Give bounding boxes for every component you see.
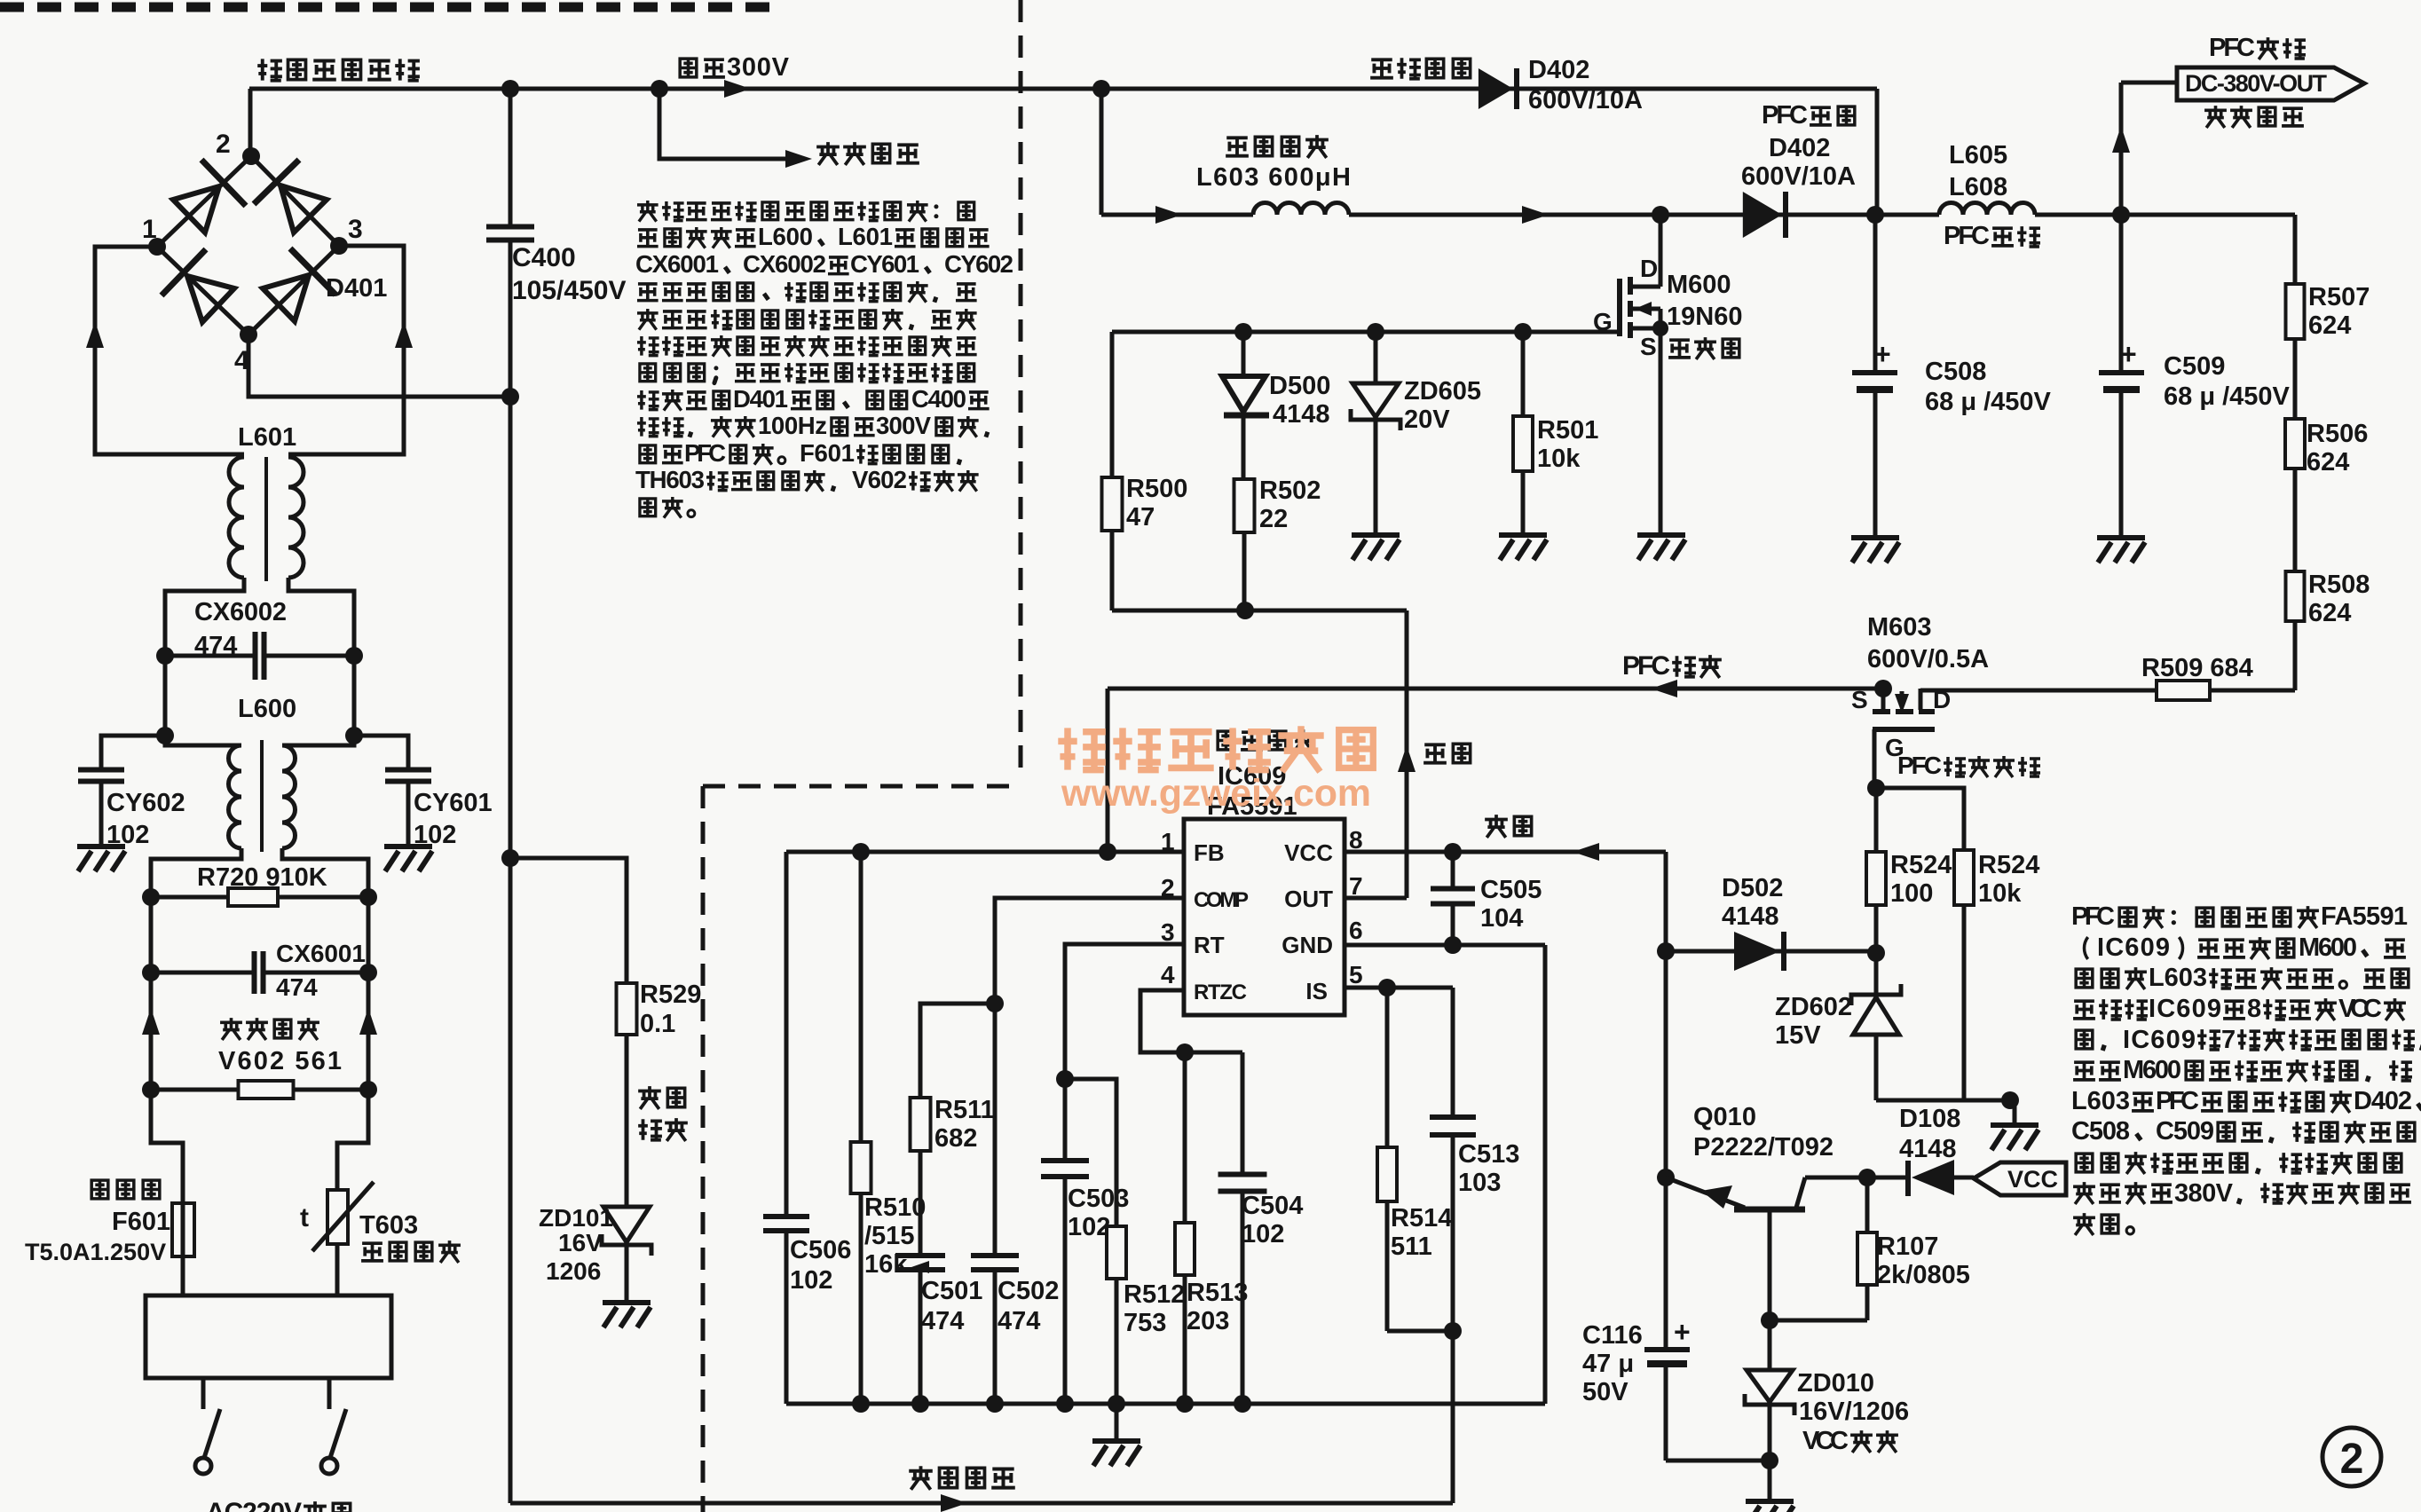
zener ZD602 [1874,953,1879,997]
svg-text:R506: R506 [2307,420,2368,448]
wire FB left rail with C506 [785,852,789,1217]
svg-text:Q010: Q010 [1693,1103,1756,1131]
svg-text:7: 7 [1349,872,1363,900]
wire R512 branch [1065,1079,1116,1226]
wire IS pin5 [1345,986,1453,990]
svg-text:104: 104 [1480,904,1523,933]
wire COMP pin2 [995,898,1184,1256]
junction D502 cathode [1867,944,1885,962]
wire bridge node4 to C400 bottom [248,335,510,397]
svg-text:IC609: IC609 [2097,933,2170,962]
label 激励 [1423,744,1447,762]
svg-text:CY602: CY602 [106,789,185,817]
svg-text:4148: 4148 [1722,902,1779,931]
bridge diode D401-1 (1 to 2) [173,186,219,232]
junction C400 top [501,80,519,98]
wire OUT pin7 [1345,896,1407,901]
wire ground rail riser [1543,945,1548,1404]
wire FB to PFC sample riser [1106,689,1110,852]
inductor L603 [1253,203,1349,216]
page number circle 2 [2322,1428,2381,1486]
ground ZD101 [603,1300,651,1305]
svg-text:IC609: IC609 [2123,1026,2196,1054]
svg-text:CY602: CY602 [944,250,1013,278]
svg-text:R507: R507 [2308,283,2370,311]
svg-text:R524: R524 [1978,851,2039,879]
svg-text:19N60: 19N60 [1667,303,1742,331]
svg-text:C400: C400 [911,385,966,413]
svg-text:600V/10A: 600V/10A [1741,162,1856,191]
svg-text:CX6001: CX6001 [276,940,366,967]
svg-text:R502: R502 [1259,476,1321,505]
svg-text:FA5591: FA5591 [2321,902,2408,931]
svg-text:t: t [300,1203,309,1232]
svg-text:D: D [1933,686,1951,713]
node 脉动300V main wire [249,87,1877,91]
svg-text:624: 624 [2308,599,2351,627]
ground C509 [2097,535,2145,540]
svg-text:R514: R514 [1391,1204,1452,1232]
svg-text:ZD101: ZD101 [539,1204,613,1232]
svg-text:+: + [2120,338,2137,370]
svg-text:www.gzweix.com: www.gzweix.com [1061,772,1371,815]
wire IS to overcurrent line [1451,1331,1455,1503]
svg-text:L603: L603 [2071,1087,2130,1115]
svg-text:R500: R500 [1126,475,1187,503]
svg-text:47: 47 [1126,503,1155,532]
svg-text:380V: 380V [2174,1179,2234,1208]
label 供电 [1485,815,1508,838]
svg-text:PFC: PFC [2071,902,2115,931]
svg-text:4148: 4148 [1899,1135,1957,1163]
wire M600 gate rail [1112,330,1620,335]
wire RTZC pin4 [1140,990,1242,1052]
svg-text:C509: C509 [2156,1117,2214,1146]
wire to R524b [1876,788,1964,850]
svg-text:IC609: IC609 [2149,995,2221,1023]
wire to R509 [2211,689,2295,693]
wire divider chain [2293,215,2298,284]
resistor R107 [1865,1177,1870,1232]
svg-text:R529: R529 [640,980,701,1009]
ground ZD010 [1746,1499,1794,1504]
wire boost rail [1101,213,1253,217]
wire VCC pin8 供电 [1345,850,1666,854]
ground R501 [1499,532,1547,538]
svg-text:D502: D502 [1722,874,1783,902]
svg-text:V602: V602 [852,466,907,493]
capacitor C506 [763,1214,809,1219]
svg-text:AC220V: AC220V [206,1498,302,1512]
capacitor C508 [1873,215,1878,371]
svg-text:8: 8 [2247,995,2261,1023]
capacitor C504 [1241,1052,1245,1175]
svg-text:C502: C502 [998,1277,1059,1305]
svg-text:C513: C513 [1458,1140,1519,1169]
wire OUT riser 激励 [1405,610,1409,898]
svg-text:C116: C116 [1582,1321,1643,1350]
svg-text:T5.0A1.250V: T5.0A1.250V [25,1239,166,1265]
junction C508 top [1866,206,1884,224]
svg-text:R107: R107 [1877,1232,1938,1261]
svg-text:16V: 16V [558,1229,603,1256]
svg-text:M600: M600 [2299,933,2357,962]
svg-text:C503: C503 [1068,1185,1129,1213]
svg-text:D402: D402 [1769,134,1830,162]
svg-text:CY601: CY601 [414,789,493,817]
ground CY601 [384,844,432,849]
resistor R507 [2286,284,2305,339]
svg-text:R509 684: R509 684 [2141,654,2253,682]
svg-text:M600: M600 [1667,271,1731,299]
svg-text:RT: RT [1194,932,1225,958]
svg-text:F601: F601 [112,1208,170,1236]
junction C509 top [2112,206,2130,224]
svg-text:CY601: CY601 [850,250,919,278]
svg-text:L608: L608 [1949,173,2007,201]
svg-text:L603: L603 [2149,964,2207,992]
svg-text:ZD010: ZD010 [1797,1369,1874,1398]
label 市电整流滤波 [257,59,282,80]
ground C508 [1851,535,1899,540]
svg-text:102: 102 [790,1266,832,1295]
svg-text:S: S [1851,686,1868,713]
svg-text:D401: D401 [326,274,387,303]
svg-text:2: 2 [2340,1436,2364,1483]
switch contacts [201,1378,206,1409]
svg-text:VCC: VCC [2338,995,2382,1023]
section border dashed vertical right [1019,0,1023,781]
wire PFC取样 feedback [1108,687,1883,691]
label 过流取样 [638,1086,661,1109]
flag DC-380V-OUT [2177,67,2364,100]
svg-text:L601: L601 [838,223,893,250]
wire to thermistor [337,1090,368,1295]
svg-text:3: 3 [348,215,363,244]
diode D500 [1234,323,1252,341]
transistor Q2 Q010 [1666,1177,1745,1208]
svg-text:22: 22 [1259,505,1288,533]
svg-text:C400: C400 [512,243,576,272]
svg-text:102: 102 [414,821,456,849]
svg-text:D108: D108 [1899,1105,1960,1133]
op-amp U1 IC609 FA5591 box [1184,819,1345,1015]
capacitor C116 [1664,1177,1668,1348]
svg-text:D401: D401 [733,385,788,413]
svg-text:L603 600μH: L603 600μH [1196,163,1351,192]
ground M600 [1637,532,1685,538]
diode D502 [1666,949,1876,954]
resistor R514 [1385,988,1390,1147]
svg-text:L600: L600 [238,695,296,723]
capacitor C501 [895,1253,945,1258]
svg-text:100Hz: 100Hz [758,412,827,439]
junction C400 bottom [501,388,519,406]
resistor R512 [1107,1226,1126,1279]
label 去副电源 [816,142,840,165]
svg-text:R512: R512 [1124,1280,1185,1309]
wire bridge node3 to L601 [288,246,404,454]
inductor L605 L608 [1939,203,2035,216]
resistor R510 [859,852,864,1142]
zener ZD010 [1768,1320,1772,1370]
wire supply riser [1664,852,1668,1177]
transistor M600 [1659,215,1663,287]
wire filter ladder rails [149,897,154,1090]
label 去主电源 [2204,106,2227,128]
label 脉动300V [680,59,697,77]
varistor V602 body [151,1088,239,1092]
svg-text:600V/10A: 600V/10A [1528,86,1643,114]
svg-text:8: 8 [1349,826,1363,854]
svg-text:PFC: PFC [1762,101,1808,130]
svg-text:D500: D500 [1269,372,1330,400]
svg-text:PFC: PFC [1897,752,1942,779]
capacitor C502 [971,1253,1019,1258]
wire main left vertical bus [509,397,513,1503]
capacitor CY602 [101,736,165,770]
capacitor C513 [1451,988,1455,1117]
svg-text:/515: /515 [864,1222,914,1250]
svg-text:C501: C501 [921,1277,982,1305]
svg-text:PFC: PFC [1622,651,1670,681]
svg-text:+: + [1674,1316,1691,1348]
zener ZD605 [1367,323,1384,341]
svg-text:6: 6 [1349,917,1363,944]
flag VCC [1974,1162,2066,1195]
svg-text:M603: M603 [1867,613,1932,642]
resistor R511 [911,1098,931,1151]
section border dashed vertical left [701,786,706,1512]
svg-text:L605: L605 [1949,141,2007,169]
bridge diode D401-4 (4 to 3) [263,275,309,321]
svg-text:C505: C505 [1480,876,1542,904]
ground R524 network [1991,1122,2039,1128]
AC input connector box [146,1295,391,1378]
svg-text:105/450V: 105/450V [512,276,626,305]
svg-text:L601: L601 [238,423,296,452]
wire output flag riser [2119,83,2124,215]
svg-text:VCC: VCC [1284,839,1333,866]
svg-text:C508: C508 [2071,1117,2130,1146]
svg-text:103: 103 [1458,1169,1501,1197]
resistor R513 [1183,1052,1187,1223]
svg-text:OUT: OUT [1284,886,1333,912]
wire 去副电源 branch [659,89,797,159]
wire bridge top riser [248,89,253,156]
wire boost riser [1100,89,1104,215]
label 驱动电路 IC609 FA5591 [1218,731,1234,750]
svg-text:4: 4 [1161,961,1175,988]
resistor R500 [1110,332,1115,477]
svg-text:C508: C508 [1925,358,1986,386]
svg-text:2: 2 [216,130,231,159]
wire R529 to ZD101 [625,1035,629,1207]
resistor R501 [1514,323,1532,341]
svg-text:511: 511 [1391,1232,1432,1261]
svg-text:L600: L600 [758,223,813,250]
svg-text:100: 100 [1890,879,1933,908]
svg-text:S: S [1640,333,1657,360]
svg-text:474: 474 [998,1307,1040,1335]
svg-text:DC-380V-OUT: DC-380V-OUT [2185,70,2328,97]
diode D108 [1867,1176,1906,1180]
junction PFC boost tap [1092,80,1110,98]
wire GND pin6 [1345,943,1545,948]
svg-text:GND: GND [1281,932,1333,958]
resistor R502 [1234,479,1255,532]
svg-text:600V/0.5A: 600V/0.5A [1867,645,1989,673]
svg-text:474: 474 [276,973,318,1001]
svg-text:68 μ /450V: 68 μ /450V [2164,382,2291,411]
svg-text:F601: F601 [800,439,855,467]
capacitor C505 [1451,852,1455,889]
capacitor C400 [509,89,513,227]
svg-text:R510: R510 [864,1193,926,1222]
wire Q010 base [1768,1209,1772,1320]
section border dashed step [703,784,1021,789]
wire bridge node1 to L601 [95,247,244,454]
bridge diode D401-3 (4 to 1) [187,276,234,322]
svg-text:ZD605: ZD605 [1404,377,1481,406]
svg-text:CX6002: CX6002 [743,250,826,278]
svg-text:RTZC: RTZC [1194,980,1247,1004]
capacitor C509 [2119,215,2124,371]
svg-text:CX6001: CX6001 [635,250,719,278]
svg-text:TH603: TH603 [635,466,705,493]
svg-text:624: 624 [2308,311,2351,340]
bridge node dots [148,238,166,256]
ground CY602 [77,844,125,849]
svg-text:G: G [1593,308,1613,335]
svg-text:P2222/T092: P2222/T092 [1693,1133,1833,1162]
svg-text:47 μ: 47 μ [1582,1350,1634,1378]
svg-text:COMP: COMP [1194,888,1249,912]
svg-text:50V: 50V [1582,1378,1628,1406]
diode D402 开机充电 [1370,59,1393,77]
label 过流保护 [909,1466,933,1490]
text block anti-interference description [637,201,658,222]
svg-text:7: 7 [2221,1026,2236,1054]
bridge D401 diamond wires [157,156,339,335]
capacitor CX6001 [151,971,255,975]
wire to fuse [151,1090,183,1295]
svg-text:102: 102 [106,821,149,849]
wire RT pin3 [1065,944,1184,1161]
svg-text:102: 102 [1242,1220,1284,1248]
svg-text:2k/0805: 2k/0805 [1877,1261,1970,1289]
junction 去副电源 tap [651,80,668,98]
svg-text:V602 561: V602 561 [218,1047,342,1075]
svg-text:D402: D402 [2354,1087,2412,1115]
wire L601 to CX6002 left [165,578,244,656]
svg-text:15V: 15V [1775,1021,1821,1050]
resistor R529 [617,983,637,1035]
junction gate network [1867,779,1885,797]
svg-text:102: 102 [1068,1213,1110,1241]
svg-text:ZD602: ZD602 [1775,993,1852,1021]
watermark [1058,728,1106,769]
svg-text:R501: R501 [1537,416,1598,445]
svg-text:D: D [1640,255,1658,282]
svg-text:68 μ /450V: 68 μ /450V [1925,388,2052,416]
wire overcurrent sense tap [501,849,519,867]
section border dashed top [0,3,770,12]
svg-text:PFC: PFC [684,439,726,467]
wire arrow main [724,80,751,98]
svg-text:0.1: 0.1 [640,1010,675,1038]
svg-text:C506: C506 [790,1236,851,1264]
svg-text:203: 203 [1187,1307,1229,1335]
resistor R524 10k [1954,850,1974,905]
resistor R506 [2285,419,2305,469]
wire 过流保护 bottom [510,1501,1453,1506]
svg-text:C504: C504 [1242,1192,1303,1220]
svg-text:C509: C509 [2164,352,2225,381]
label 开关管 [1668,340,1691,358]
label 储能电感 L603 [1226,138,1249,155]
resistor R509 [2157,681,2210,700]
capacitor C503 [1041,1158,1089,1163]
svg-text:PFC: PFC [2156,1087,2199,1115]
svg-text:M600: M600 [2123,1056,2181,1084]
bridge diode D401-2 (3 to 2) [280,185,327,232]
svg-text:4148: 4148 [1273,400,1330,429]
svg-text:474: 474 [921,1307,964,1335]
svg-text:T603: T603 [359,1211,418,1240]
fuse F601 [172,1203,194,1256]
svg-text:R513: R513 [1187,1279,1248,1307]
wire L601 to CX6002 right [288,578,354,656]
svg-text:10k: 10k [1978,879,2022,908]
svg-text:300V: 300V [876,412,932,439]
svg-text:+: + [1874,338,1891,370]
wire gate network bottom rail [1112,609,1407,613]
resistor R508 [2286,571,2305,621]
transistor M603 gate bar [1873,727,1935,732]
label 限流电阻 [361,1243,383,1261]
ground ZD605 [1352,532,1400,538]
wire charge corner [1875,89,1880,215]
svg-text:VCC: VCC [2007,1166,2058,1193]
svg-text:10k: 10k [1537,445,1581,473]
svg-text:624: 624 [2307,448,2349,476]
svg-text:PFC: PFC [1944,222,1990,250]
wire R511 branch [920,1004,995,1098]
svg-text:IS: IS [1305,978,1328,1004]
svg-text:FB: FB [1194,839,1225,866]
zener ZD101 [603,1207,650,1242]
svg-text:5: 5 [1349,961,1363,988]
capacitor CY601 [354,736,408,770]
svg-text:D402: D402 [1528,56,1589,84]
svg-text:VCC: VCC [1802,1427,1849,1455]
wire CX6002 to L600 rails [163,656,168,736]
svg-text:1206: 1206 [546,1257,601,1285]
svg-text:3: 3 [1161,918,1175,946]
svg-text:300V: 300V [727,53,790,82]
svg-text:753: 753 [1124,1309,1166,1337]
wire ground rail [786,1402,1545,1406]
resistor R524 100 [1874,788,1879,852]
label 压敏电阻 V602 [220,1018,242,1040]
ground main rail symbol [1115,1404,1119,1441]
varistor V602 arrows [142,1008,160,1035]
svg-text:682: 682 [934,1124,977,1153]
svg-text:16V/1206: 16V/1206 [1799,1398,1909,1426]
svg-text:PFC: PFC [2209,34,2255,62]
svg-text:CX6002: CX6002 [194,598,287,626]
